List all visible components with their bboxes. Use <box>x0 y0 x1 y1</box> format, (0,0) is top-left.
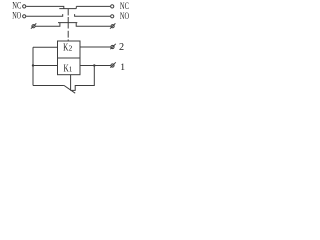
wire K2 left <box>33 46 58 48</box>
movable bridge row1 <box>59 8 76 10</box>
terminal circle 2 (slashed) <box>111 45 114 48</box>
contact tick common row right <box>76 23 110 26</box>
terminal circle NC left <box>23 5 26 8</box>
contact tick row1 right <box>75 6 77 8</box>
terminal circle NO right <box>111 15 114 18</box>
mechanical linkage dashed segment 4 <box>67 39 69 41</box>
svg-text:NO: NO <box>120 12 129 22</box>
wire right hook from K1 junction <box>72 66 95 91</box>
slash of common left terminal <box>31 23 36 28</box>
wire NO row left lead with up tick <box>26 14 63 16</box>
coil box divider <box>58 57 81 59</box>
terminal circle common left (slashed) <box>32 25 35 28</box>
label K1 <box>64 62 73 74</box>
svg-text:1: 1 <box>69 65 73 73</box>
wire NC row left lead <box>26 6 64 8</box>
svg-text:2: 2 <box>119 42 124 53</box>
wire K1 right <box>80 65 111 67</box>
coil box outline <box>58 41 81 75</box>
wire armature bottom run <box>33 85 64 87</box>
mechanical linkage dashed segment 3 <box>67 31 69 38</box>
svg-text:NC: NC <box>12 2 21 12</box>
terminal circle 1 (slashed) <box>111 64 114 67</box>
junction dot K1 right wire <box>93 64 95 66</box>
armature center vertical <box>70 75 72 91</box>
wire K2 right <box>80 46 111 48</box>
terminal circle NC right <box>111 5 114 8</box>
svg-text:NC: NC <box>120 2 129 12</box>
movable bridge row3 <box>58 22 77 24</box>
svg-text:1: 1 <box>120 62 125 73</box>
wire left bus vertical <box>32 47 34 85</box>
slash of terminal 1 <box>110 62 116 67</box>
label K2 <box>63 42 73 54</box>
wire common row left lead with up tick <box>36 23 60 26</box>
slash of common right terminal <box>110 23 115 28</box>
terminal circle NO left <box>23 15 26 18</box>
svg-text:2: 2 <box>69 44 73 53</box>
slash of terminal 2 <box>110 44 116 49</box>
junction dot left bus / K1 wire <box>32 64 34 66</box>
mechanical linkage dashed segment 1 <box>67 9 69 16</box>
wire K1 left <box>33 65 58 67</box>
wire NC row right lead <box>76 5 110 7</box>
contact tick NO row right <box>75 14 111 16</box>
armature diagonal <box>64 85 75 93</box>
svg-text:NO: NO <box>12 12 21 22</box>
mechanical linkage dashed segment 2 <box>67 17 69 29</box>
terminal circle common right (slashed) <box>111 25 114 28</box>
